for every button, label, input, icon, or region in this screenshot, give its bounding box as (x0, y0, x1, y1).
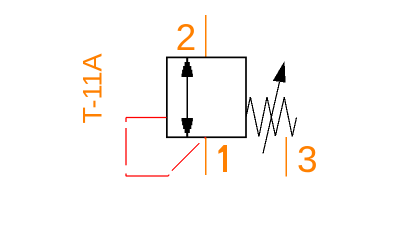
valve body (square envelope) (167, 57, 246, 137)
flow arrow head up (182, 58, 193, 78)
svg-text:3: 3 (297, 139, 318, 180)
pilot line segment A (red dashed, from body left) (126, 117, 167, 119)
wire port 2 (orange vertical line top) (205, 15, 207, 58)
pilot line segment B dash 3 (red, vertical stub at bottom corner) (125, 174, 127, 177)
label port 1 (218, 145, 227, 172)
flow arrow shaft (double-headed, inside valve body) (186, 59, 188, 136)
spring (adjustable, zigzag right of body) (246, 97, 297, 137)
adjustment arrow head (273, 61, 286, 83)
wire port 3 (orange vertical line, right) (285, 137, 287, 177)
pilot line segment D dash 2 (red diagonal to port 1) (172, 143, 199, 170)
pilot line segment B dash 2 (red, vertical) (125, 128, 127, 165)
pilot line segment B dash 1 (red, vertical stub at top corner) (125, 118, 127, 123)
node port 1 junction (red dash tip) (205, 137, 206, 138)
pilot line segment C (red dashed, bottom horizontal) (126, 175, 169, 177)
svg-text:T-11A: T-11A (78, 53, 108, 123)
flow arrow head down (182, 118, 193, 138)
wire port 1 (orange vertical line below body) (205, 138, 207, 176)
pilot line segment D dash 1 (red, corner stub of diagonal) (168, 175, 169, 176)
svg-text:2: 2 (176, 17, 197, 58)
adjustment arrow shaft (263, 82, 280, 154)
